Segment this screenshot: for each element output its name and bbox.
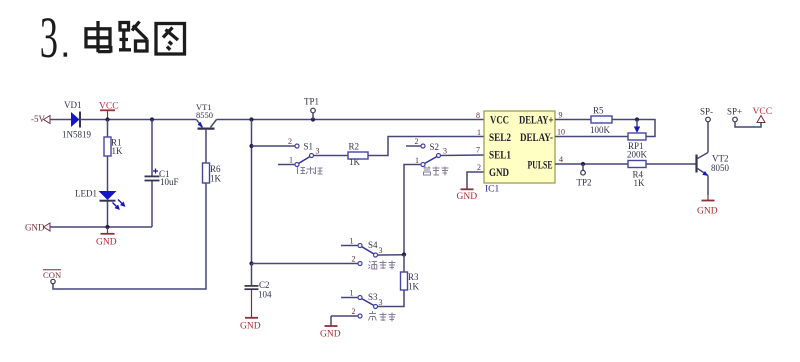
svg-text:VCC: VCC bbox=[753, 107, 773, 117]
potentiometer RP1 wiper arrow bbox=[634, 120, 640, 134]
svg-text:8: 8 bbox=[476, 111, 480, 120]
svg-text:GND: GND bbox=[240, 322, 261, 332]
svg-text:S1: S1 bbox=[304, 141, 314, 151]
wire IC pin9 to R5 bbox=[555, 119, 591, 121]
svg-text:DELAY+: DELAY+ bbox=[519, 114, 554, 127]
svg-text:TP1: TP1 bbox=[304, 97, 319, 107]
diode VD1 bbox=[62, 100, 91, 140]
node C2 junction bbox=[249, 261, 253, 265]
wire VT1 base to R6 bbox=[205, 130, 207, 163]
svg-text:100K: 100K bbox=[590, 125, 611, 135]
svg-text:200K: 200K bbox=[627, 150, 648, 160]
switch S4 pin2 bbox=[352, 255, 363, 266]
ground symbol (S3) bbox=[320, 326, 341, 340]
svg-text:1K: 1K bbox=[349, 157, 361, 167]
wire S1 pin3 to R2 bbox=[314, 155, 349, 157]
svg-text:1N5819: 1N5819 bbox=[62, 130, 91, 140]
node TP2 junction bbox=[581, 162, 585, 166]
svg-text:GND: GND bbox=[489, 166, 509, 179]
wire LED1 to bottom rail bbox=[107, 202, 109, 228]
svg-text:PULSE: PULSE bbox=[528, 159, 553, 172]
svg-text:8050: 8050 bbox=[711, 163, 730, 173]
wire R5 to RP1 loop bbox=[612, 120, 655, 137]
电 bbox=[86, 21, 111, 53]
svg-text:TP2: TP2 bbox=[577, 178, 592, 188]
svg-text:1: 1 bbox=[350, 237, 354, 246]
switch S4 bbox=[341, 237, 383, 258]
capacitor C1 bbox=[145, 120, 179, 228]
svg-text:2: 2 bbox=[477, 163, 481, 172]
node C1 junction bbox=[150, 117, 154, 121]
svg-text:4: 4 bbox=[559, 155, 563, 164]
node R3 top junction bbox=[402, 252, 406, 256]
svg-text:S4: S4 bbox=[368, 240, 378, 250]
svg-text:2: 2 bbox=[288, 137, 292, 146]
svg-text:R3: R3 bbox=[408, 272, 419, 282]
resistor R6 bbox=[203, 163, 222, 184]
ground symbol (IC) bbox=[457, 189, 478, 202]
svg-text:3: 3 bbox=[379, 298, 383, 307]
wire R6 to CON line bbox=[53, 183, 206, 289]
resistor R1 bbox=[104, 120, 123, 157]
svg-text:GND: GND bbox=[697, 207, 718, 217]
LED LED1 bbox=[75, 189, 124, 209]
svg-text:10uF: 10uF bbox=[160, 177, 179, 187]
wire VT2 collector to SP- bbox=[707, 122, 709, 153]
switch S2 bbox=[406, 137, 447, 167]
label 救护车 bbox=[369, 311, 396, 322]
power VCC (left) bbox=[99, 102, 119, 120]
wire S1 column vertical bbox=[251, 120, 253, 264]
wire to S1 pin 2 bbox=[252, 145, 296, 147]
power VCC (right, arrow up) bbox=[753, 107, 773, 123]
svg-text:IC1: IC1 bbox=[485, 185, 500, 195]
node S1 column junction bbox=[249, 117, 253, 121]
svg-text:7: 7 bbox=[476, 146, 480, 155]
wire S2 pin3 to IC pin7 (SEL1) bbox=[441, 154, 485, 157]
svg-text:SP+: SP+ bbox=[727, 107, 742, 117]
ground symbol (left) bbox=[96, 227, 117, 248]
wire -5V to VD1 bbox=[50, 119, 71, 121]
node RP1 wiper junction bbox=[635, 117, 639, 121]
svg-text:3: 3 bbox=[40, 7, 58, 70]
label 机关枪 bbox=[298, 167, 323, 175]
wire R2 to IC pin1 (SEL2) bbox=[368, 137, 484, 156]
svg-text:R6: R6 bbox=[210, 164, 221, 174]
svg-text:2: 2 bbox=[415, 137, 419, 146]
node S1 pin2 branch bbox=[249, 144, 253, 148]
wire R1 to LED1 bbox=[107, 156, 109, 191]
svg-text:1: 1 bbox=[477, 128, 481, 137]
svg-text:2: 2 bbox=[352, 307, 356, 316]
wire VT2 emitter to ground bbox=[707, 176, 709, 196]
label 消防车 bbox=[369, 261, 396, 270]
svg-text:1: 1 bbox=[415, 156, 419, 165]
svg-text:CON: CON bbox=[43, 270, 62, 280]
svg-text:VD1: VD1 bbox=[64, 100, 82, 110]
wire S2 pin1 down to S4/R3 node bbox=[404, 165, 421, 255]
connector SP- bbox=[700, 107, 713, 122]
switch S1 bbox=[278, 137, 320, 167]
svg-text:S3: S3 bbox=[368, 292, 378, 302]
svg-text:-5V: -5V bbox=[31, 114, 45, 124]
ground symbol (C2) bbox=[240, 318, 261, 332]
resistor R3 bbox=[401, 255, 420, 292]
svg-text:1: 1 bbox=[289, 156, 293, 165]
connector GND (left arrow) bbox=[25, 223, 50, 233]
wire S4 pin3 to R3 node bbox=[378, 254, 405, 256]
wire C2 node to S4 pin2 bbox=[252, 263, 359, 265]
路 bbox=[119, 22, 147, 52]
resistor R5 bbox=[590, 106, 612, 136]
switch S3 bbox=[331, 289, 383, 326]
wire SP+ to VCC bbox=[735, 122, 761, 127]
testpoint TP2 bbox=[577, 164, 592, 188]
label 警卫车 bbox=[424, 167, 449, 176]
svg-text:1K: 1K bbox=[112, 146, 124, 156]
wire rail VT1 to IC pin8 bbox=[217, 119, 485, 121]
svg-text:GND: GND bbox=[457, 192, 478, 202]
svg-text:3: 3 bbox=[379, 246, 383, 255]
svg-text:2: 2 bbox=[352, 255, 356, 264]
wire bottom left rail bbox=[50, 226, 152, 228]
svg-text:8550: 8550 bbox=[196, 110, 213, 120]
svg-text:GND: GND bbox=[320, 330, 341, 340]
svg-text:VCC: VCC bbox=[490, 114, 509, 127]
svg-text:R5: R5 bbox=[593, 106, 604, 116]
svg-text:SEL2: SEL2 bbox=[489, 131, 511, 144]
svg-text:GND: GND bbox=[96, 238, 117, 248]
title: 3.电路图 bbox=[40, 7, 185, 70]
connector SP+ bbox=[727, 107, 742, 122]
svg-text:1K: 1K bbox=[210, 174, 222, 184]
svg-text:GND: GND bbox=[25, 223, 45, 233]
svg-text:1K: 1K bbox=[408, 282, 420, 292]
svg-text:3: 3 bbox=[443, 147, 447, 156]
capacitor C2 bbox=[245, 264, 273, 318]
svg-text:1K: 1K bbox=[634, 178, 646, 188]
node TP1 junction bbox=[311, 117, 315, 121]
wire IC pin4 to R4 bbox=[555, 163, 628, 165]
svg-text:9: 9 bbox=[559, 111, 563, 120]
svg-text:1: 1 bbox=[350, 289, 354, 298]
svg-text:10: 10 bbox=[557, 128, 565, 137]
node bottom junction bbox=[105, 225, 109, 229]
transistor VT1 (PNP 8550) bbox=[196, 102, 217, 129]
图 bbox=[156, 24, 185, 55]
wire IC GND pin stub bbox=[467, 172, 484, 189]
connector CON bbox=[43, 270, 62, 284]
svg-text:R2: R2 bbox=[349, 142, 360, 152]
potentiometer RP1 bbox=[627, 133, 648, 160]
wire R4 to VT2 base bbox=[646, 163, 696, 165]
wire IC pin10 to RP1 bbox=[555, 136, 628, 138]
svg-text:DELAY-: DELAY- bbox=[520, 131, 553, 144]
node VCC junction bbox=[105, 117, 109, 121]
svg-text:C2: C2 bbox=[259, 280, 270, 290]
svg-text:SEL1: SEL1 bbox=[489, 149, 511, 162]
wire VD1 to VT1 emitter bbox=[80, 119, 197, 121]
testpoint TP1 bbox=[304, 97, 319, 120]
svg-text:VT2: VT2 bbox=[712, 154, 729, 164]
svg-text:S2: S2 bbox=[430, 142, 440, 152]
svg-text:3: 3 bbox=[316, 147, 320, 156]
ground symbol (VT2) bbox=[697, 195, 718, 217]
svg-text:104: 104 bbox=[258, 290, 272, 300]
IC IC1 (sound generator) box bbox=[484, 111, 555, 195]
svg-text:SP-: SP- bbox=[700, 107, 713, 117]
wire R3 to S3 pin3 bbox=[378, 290, 405, 307]
connector -5V bbox=[31, 114, 50, 124]
svg-text:LED1: LED1 bbox=[75, 189, 97, 199]
resistor R4 bbox=[628, 161, 646, 189]
transistor VT2 (NPN 8050) bbox=[697, 153, 730, 176]
resistor R2 bbox=[348, 142, 368, 168]
